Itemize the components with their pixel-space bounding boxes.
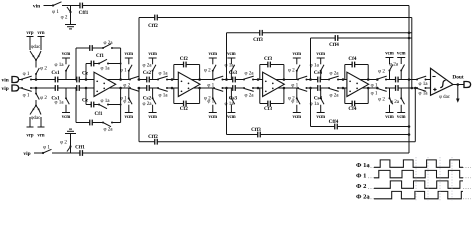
svg-text:Φ 2a: Φ 2a bbox=[356, 193, 370, 200]
svg-text:vcm: vcm bbox=[125, 115, 134, 120]
svg-text:vcm: vcm bbox=[227, 52, 236, 57]
wire bbox=[31, 87, 55, 89]
svg-text:Cᴢ: Cᴢ bbox=[82, 70, 89, 76]
wire bbox=[34, 152, 43, 154]
capacitor Cff1 (top) bbox=[79, 3, 81, 9]
svg-text:φ 1a: φ 1a bbox=[158, 93, 168, 99]
svg-text:Cf3: Cf3 bbox=[264, 106, 272, 112]
switch phi1a (stage1 inner top) bbox=[98, 63, 100, 65]
switch φ 2a to vcm (top, before Cs2) bbox=[152, 71, 154, 80]
svg-text:φ 1: φ 1 bbox=[291, 99, 298, 105]
wire bbox=[223, 87, 233, 89]
series switch φ 1 (top) bbox=[289, 79, 298, 81]
node bbox=[35, 105, 37, 107]
node bbox=[408, 32, 411, 35]
wire to op input (top) bbox=[253, 79, 263, 81]
wire to op input (bottom) bbox=[253, 87, 263, 89]
svg-text:φ 1a: φ 1a bbox=[310, 101, 320, 107]
capacitor Cf1 (bottom) bbox=[90, 102, 92, 108]
wire bbox=[52, 152, 80, 154]
wire bbox=[386, 87, 396, 89]
capacitor Cs1 (bottom) bbox=[54, 85, 56, 91]
svg-text:Cff1: Cff1 bbox=[75, 145, 85, 151]
clock waveform Φ 2 bbox=[374, 181, 463, 188]
wire bbox=[58, 87, 77, 89]
wire bus B (vertical, right) bbox=[411, 18, 413, 89]
svg-text:vcm: vcm bbox=[209, 52, 218, 57]
switch phi2a to vcm (top) bbox=[400, 71, 402, 80]
switch phi2 to ground (bottom) bbox=[70, 147, 72, 153]
capacitor Cs2 (top) bbox=[146, 77, 148, 83]
svg-text:Cff3: Cff3 bbox=[251, 127, 261, 133]
node DAC top junction bbox=[35, 78, 38, 81]
switch phi2a to vcm (bottom) bbox=[400, 88, 402, 98]
wire to op input (bottom) bbox=[338, 87, 347, 89]
series switch φ 2a (bottom) bbox=[235, 87, 244, 89]
svg-text:φ 2: φ 2 bbox=[40, 95, 47, 101]
dotted grid lines (clock) bbox=[415, 157, 417, 201]
terminal vrp bbox=[29, 37, 31, 51]
wire bbox=[79, 87, 94, 89]
clock waveform Φ 2a bbox=[374, 191, 463, 198]
svg-text:vin: vin bbox=[2, 78, 9, 84]
node feed-forward riser (top) bbox=[309, 78, 312, 81]
wire feed-forward riser to Cff rail (bottom) bbox=[138, 88, 140, 142]
wire Cff2 top rail bbox=[139, 17, 155, 19]
wire to op input (bottom) bbox=[167, 87, 178, 89]
comparator U5 bbox=[431, 68, 454, 95]
node summing (top) bbox=[342, 78, 345, 81]
svg-text:φ 1: φ 1 bbox=[23, 93, 30, 99]
wire bbox=[62, 5, 80, 7]
svg-text:Φ 1a: Φ 1a bbox=[356, 162, 370, 169]
switch phi2 (DAC top) bbox=[35, 74, 37, 80]
switch phidac right bottom (vrn) bbox=[36, 106, 39, 110]
svg-text:φ 2a: φ 2a bbox=[103, 40, 113, 46]
svg-text:φ 1: φ 1 bbox=[371, 91, 378, 97]
svg-text:φ 1a: φ 1a bbox=[224, 63, 234, 69]
wire bus C (vertical, right bottom) bbox=[414, 88, 416, 142]
latch symbol inside comparator bbox=[440, 80, 445, 87]
svg-text:φ 1a: φ 1a bbox=[310, 63, 320, 69]
capacitor Cf1 (top) bbox=[90, 61, 92, 67]
svg-text:Cf3: Cf3 bbox=[264, 56, 272, 62]
svg-text:Cs1: Cs1 bbox=[51, 70, 60, 76]
svg-text:Cs4: Cs4 bbox=[314, 70, 323, 76]
wire bbox=[18, 79, 22, 81]
series switch φ 1 (top) bbox=[205, 79, 214, 81]
node bus C / comparator bottom rail bbox=[414, 87, 417, 90]
svg-text:vrp: vrp bbox=[26, 133, 34, 138]
svg-text:Cff2: Cff2 bbox=[148, 134, 158, 140]
switch phi1a (stage1 inner bottom) bbox=[98, 104, 100, 106]
wire bbox=[398, 79, 417, 81]
dotted leader bbox=[368, 187, 374, 189]
svg-text:Cf4: Cf4 bbox=[348, 106, 356, 112]
svg-text:φ 1: φ 1 bbox=[120, 68, 127, 74]
ground bbox=[65, 24, 76, 26]
svg-text:Dout: Dout bbox=[452, 74, 463, 80]
wire bbox=[307, 87, 318, 89]
svg-text:vcm: vcm bbox=[148, 52, 157, 57]
wire comparator input top bbox=[426, 79, 431, 81]
wire Cff2 bottom rail bbox=[139, 141, 155, 143]
node bus B / comparator bottom rail bbox=[411, 87, 414, 90]
svg-text:vcm: vcm bbox=[385, 115, 394, 120]
capacitor Cf4 (bottom feedback) bbox=[344, 88, 346, 104]
switch phi2 to ground bbox=[70, 6, 72, 12]
switch phi2a (stage1 outer bottom) bbox=[102, 122, 104, 124]
switch φ 1a to vcm (top, before Cs3) bbox=[230, 71, 232, 80]
capacitor Cs2 (bottom) bbox=[146, 85, 148, 91]
wire Cff4 top rail bbox=[311, 37, 336, 39]
terminal vrn bottom bbox=[40, 117, 42, 127]
capacitor Cz (bottom) bbox=[76, 85, 78, 91]
wire Cff3 bottom rail bbox=[227, 134, 258, 136]
ground (bottom, inverted) bbox=[65, 133, 76, 135]
svg-text:Cf2: Cf2 bbox=[180, 106, 188, 112]
op-amp U1 (integrator 1) bbox=[94, 72, 116, 96]
switch phi1 (vip) bbox=[21, 87, 23, 89]
wire Cff4 bottom rail bbox=[311, 126, 335, 128]
svg-text:vcm: vcm bbox=[148, 115, 157, 120]
svg-text:vcm: vcm bbox=[293, 115, 302, 120]
comparator plus input mark bbox=[433, 89, 436, 91]
terminal vrn bbox=[40, 37, 42, 51]
op-amp U4 (integrator 4) bbox=[347, 72, 369, 96]
svg-text:φ dac: φ dac bbox=[439, 95, 451, 100]
terminal vrp bottom bbox=[29, 117, 31, 127]
capacitor Cff4 (bottom) bbox=[334, 124, 336, 130]
svg-text:Cff1: Cff1 bbox=[79, 10, 89, 16]
wire bbox=[44, 5, 54, 7]
svg-text:φ 1a: φ 1a bbox=[100, 98, 110, 104]
capacitor Cs4 (bottom) bbox=[317, 85, 319, 91]
capacitor Cf2 (top feedback) bbox=[173, 65, 175, 80]
svg-text:vcm: vcm bbox=[385, 51, 394, 56]
node bbox=[85, 78, 88, 81]
svg-text:vin: vin bbox=[33, 3, 40, 9]
series switch phi1a (top comparator input) bbox=[416, 79, 418, 81]
node summing (top) bbox=[171, 78, 174, 81]
wire bbox=[79, 79, 94, 81]
node feed-forward riser (top) bbox=[225, 78, 228, 81]
wire stage1 inner loop bottom bbox=[85, 88, 87, 105]
switch phidac left bottom (vrp) bbox=[34, 106, 37, 110]
input pad vip bbox=[12, 85, 19, 91]
dotted leader bbox=[368, 198, 374, 200]
svg-text:φ 2: φ 2 bbox=[40, 66, 47, 72]
svg-text:φ 1a: φ 1a bbox=[54, 100, 64, 106]
svg-text:vcm: vcm bbox=[293, 52, 302, 57]
node summing (bottom) bbox=[171, 87, 174, 90]
switch φ 2 to vcm (bottom, after op) bbox=[212, 88, 214, 98]
wire Cff3 top rail bbox=[227, 32, 260, 34]
svg-text:vcm: vcm bbox=[397, 115, 406, 120]
wire bus A (vertical, right) bbox=[408, 6, 410, 154]
comparator minus input mark bbox=[432, 76, 435, 78]
svg-text:φ 1a: φ 1a bbox=[100, 66, 110, 72]
node bbox=[120, 63, 122, 65]
dotted leader bbox=[368, 166, 374, 168]
wire comparator output bbox=[453, 84, 464, 86]
wire bbox=[58, 79, 77, 81]
svg-text:φ 2: φ 2 bbox=[288, 68, 295, 74]
svg-text:φ 1a: φ 1a bbox=[224, 101, 234, 107]
switch φ 2 to vcm (top, after op) bbox=[212, 71, 214, 80]
node bus A / comparator top rail bbox=[408, 78, 411, 81]
svg-text:φ 2: φ 2 bbox=[378, 69, 385, 75]
wire stage1 outer loop top bbox=[75, 48, 77, 80]
svg-text:Cf2: Cf2 bbox=[180, 56, 188, 62]
switch phi2a (stage1 outer top) bbox=[102, 47, 104, 49]
svg-text:Cff4: Cff4 bbox=[329, 119, 339, 125]
svg-text:φ 2a: φ 2a bbox=[329, 93, 339, 99]
series switch φ 2a (top) bbox=[320, 79, 329, 81]
svg-text:φ 2: φ 2 bbox=[61, 15, 68, 21]
svg-text:φ 1: φ 1 bbox=[23, 71, 30, 77]
svg-text:vcm: vcm bbox=[397, 51, 406, 56]
svg-text:vrn: vrn bbox=[37, 31, 45, 36]
switch phi2 to vcm (top) bbox=[389, 71, 391, 80]
capacitor Cf2 (bottom feedback) bbox=[173, 88, 175, 104]
node bbox=[120, 104, 122, 106]
wire op outputs bbox=[276, 79, 292, 81]
switch φ 2a to vcm (bottom, before Cs2) bbox=[152, 88, 154, 98]
node feed-forward riser (bottom) bbox=[309, 87, 312, 90]
capacitor Cs1 (top) bbox=[54, 77, 56, 83]
capacitor Cs4 (top) bbox=[317, 77, 319, 83]
wire bbox=[139, 87, 147, 89]
capacitor Cf4 (top feedback) bbox=[344, 65, 346, 80]
capacitor Cs3 (top) bbox=[232, 77, 234, 83]
svg-text:Cᴢ: Cᴢ bbox=[82, 98, 89, 104]
capacitor comparator sampling (top) bbox=[395, 77, 397, 83]
series switch φ 1a (bottom) bbox=[149, 87, 158, 89]
switch phi1 (bottom feed-forward) bbox=[42, 152, 44, 154]
wire feed-forward riser to Cff rail (bottom) bbox=[310, 88, 312, 127]
svg-text:φ 2a: φ 2a bbox=[390, 99, 400, 105]
series switch phi1 (top, before comparator caps) bbox=[376, 79, 378, 81]
svg-text:φ 1a: φ 1a bbox=[418, 81, 428, 87]
node feed-forward riser (bottom) bbox=[138, 87, 141, 90]
series switch φ 2a (top) bbox=[235, 79, 244, 81]
node bbox=[408, 133, 411, 136]
svg-text:φ 1a: φ 1a bbox=[54, 62, 64, 68]
svg-text:vcm: vcm bbox=[62, 52, 71, 57]
svg-text:φ 1: φ 1 bbox=[52, 9, 59, 15]
wire op outputs bbox=[192, 79, 208, 81]
series switch φ 2a (bottom) bbox=[320, 87, 329, 89]
svg-text:vcm: vcm bbox=[125, 52, 134, 57]
capacitor Cf1 outer (top) bbox=[89, 45, 91, 51]
switch φ 1a to vcm (top, before Cs4) bbox=[320, 71, 322, 80]
svg-text:vcm: vcm bbox=[62, 115, 71, 120]
wire to op input (top) bbox=[338, 79, 347, 81]
wire feed-forward riser to Cff rail (top) bbox=[310, 38, 312, 80]
switch phidac right (vrn) bbox=[36, 57, 39, 61]
series switch φ 2 (bottom) bbox=[121, 87, 130, 89]
node summing (bottom) bbox=[257, 87, 260, 90]
node DAC bottom junction bbox=[35, 87, 38, 90]
wire bbox=[31, 79, 55, 81]
series switch φ 1a (top) bbox=[149, 79, 158, 81]
wire to op input (top) bbox=[167, 79, 178, 81]
svg-text:φ 2: φ 2 bbox=[378, 97, 385, 103]
svg-text:Cs2: Cs2 bbox=[143, 70, 152, 76]
node bbox=[408, 37, 411, 40]
series switch phi1a (bottom comparator input) bbox=[416, 87, 418, 89]
switch φ 2 to vcm (bottom, after op) bbox=[296, 88, 298, 98]
svg-text:φ 1: φ 1 bbox=[43, 145, 50, 151]
svg-text:Cf1: Cf1 bbox=[96, 53, 104, 59]
series switch φ 1 (bottom) bbox=[289, 87, 298, 89]
clock waveform Φ 1 bbox=[374, 170, 463, 177]
node feed-forward riser (top) bbox=[138, 78, 141, 81]
wire bbox=[223, 79, 233, 81]
op-amp U3 (integrator 3) bbox=[263, 72, 285, 96]
capacitor Cff1 (bottom) bbox=[79, 150, 81, 156]
svg-text:φ 1a: φ 1a bbox=[158, 71, 168, 77]
node summing (top) bbox=[257, 78, 260, 81]
svg-text:φ 2: φ 2 bbox=[204, 68, 211, 74]
output pad Dout bbox=[464, 82, 471, 88]
series switch φ 1 (bottom) bbox=[205, 87, 214, 89]
wire stage1 outer loop bottom bbox=[75, 88, 77, 123]
svg-text:Cs3: Cs3 bbox=[229, 96, 238, 102]
node op4 output (bottom) bbox=[376, 87, 379, 90]
capacitor Cf3 (top feedback) bbox=[259, 65, 261, 80]
node Cz bottom plate junction bbox=[75, 87, 77, 89]
svg-text:φ 1a: φ 1a bbox=[418, 91, 428, 97]
series switch φ 2 (top) bbox=[121, 79, 130, 81]
wire comparator input bottom bbox=[426, 87, 431, 89]
svg-text:vcm: vcm bbox=[227, 115, 236, 120]
wire feed-forward riser to Cff rail (top) bbox=[226, 33, 228, 80]
op-amp U2 (integrator 2) bbox=[178, 72, 200, 96]
wire stage1 inner loop top bbox=[85, 64, 87, 80]
input pad vin bbox=[12, 77, 19, 83]
switch phi1 (top feed-forward) bbox=[52, 4, 54, 6]
switch φ 2 to vcm (top, after op) bbox=[296, 71, 298, 80]
wire bbox=[139, 79, 147, 81]
switch φ 1a to vcm (bottom, before Cs4) bbox=[320, 88, 322, 98]
svg-text:vrp: vrp bbox=[26, 31, 34, 36]
capacitor Cff3 (bottom) bbox=[257, 132, 259, 138]
svg-text:φdac: φdac bbox=[31, 116, 40, 121]
wire feed-forward riser to Cff rail (top) bbox=[138, 18, 140, 80]
svg-text:Cf1: Cf1 bbox=[95, 111, 103, 117]
capacitor Cff2 (top) bbox=[154, 15, 156, 21]
capacitor Cf3 (bottom feedback) bbox=[259, 88, 261, 104]
svg-text:φ 2a: φ 2a bbox=[142, 101, 152, 107]
clock waveform Φ 1a bbox=[374, 160, 463, 167]
node feed-forward riser (bottom) bbox=[225, 87, 228, 90]
series switch phi1 (bottom, before comparator caps) bbox=[376, 87, 378, 89]
svg-text:vcm: vcm bbox=[316, 52, 325, 57]
svg-text:φ 2a: φ 2a bbox=[142, 63, 152, 69]
svg-text:φ 2a: φ 2a bbox=[244, 93, 254, 99]
svg-text:vrn: vrn bbox=[37, 133, 45, 138]
wire bbox=[398, 87, 417, 89]
node Cz top plate junction bbox=[75, 79, 77, 81]
node bbox=[408, 125, 411, 128]
svg-text:Cs2: Cs2 bbox=[143, 96, 152, 102]
wire bbox=[18, 87, 22, 89]
capacitor Cff4 (top) bbox=[334, 35, 336, 41]
svg-text:φ 2: φ 2 bbox=[123, 99, 130, 105]
svg-text:Cff3: Cff3 bbox=[253, 37, 263, 43]
svg-text:vcm: vcm bbox=[209, 115, 218, 120]
svg-text:φ 2a: φ 2a bbox=[244, 71, 254, 77]
switch phi2 (DAC bottom) bbox=[35, 88, 37, 94]
switch phi2 to vcm (bottom) bbox=[389, 88, 391, 98]
wire bbox=[307, 79, 318, 81]
wire feedback to DAC (arrow down) bbox=[457, 85, 459, 99]
svg-text:φ 2a: φ 2a bbox=[389, 62, 399, 68]
wire op outputs bbox=[360, 79, 376, 81]
svg-text:vip: vip bbox=[23, 151, 30, 157]
svg-text:Φ 2: Φ 2 bbox=[356, 183, 367, 190]
node summing (bottom) bbox=[342, 87, 345, 90]
switch phi1a to vcm (top) bbox=[65, 71, 67, 80]
node bbox=[35, 59, 37, 61]
svg-text:φdac: φdac bbox=[31, 45, 40, 50]
wire feed-forward riser to Cff rail (bottom) bbox=[226, 88, 228, 135]
switch φ 1 to vcm (bottom, after op) bbox=[128, 88, 130, 98]
switch phi1a to vcm (bottom) bbox=[65, 88, 67, 98]
switch φ 1 to vcm (top, after op) bbox=[128, 71, 130, 80]
capacitor Cs3 (bottom) bbox=[232, 85, 234, 91]
wire Cff1 rail to bus A bbox=[83, 5, 410, 7]
svg-text:Cff2: Cff2 bbox=[148, 23, 158, 29]
svg-text:Cs3: Cs3 bbox=[229, 70, 238, 76]
svg-text:φ 1: φ 1 bbox=[207, 99, 214, 105]
svg-text:vcm: vcm bbox=[316, 115, 325, 120]
svg-text:φ 2a: φ 2a bbox=[329, 71, 339, 77]
svg-text:Φ 1: Φ 1 bbox=[356, 172, 366, 179]
svg-text:Cs4: Cs4 bbox=[314, 96, 323, 102]
dotted leader bbox=[368, 177, 374, 179]
switch phidac left (vrp) bbox=[34, 57, 37, 61]
capacitor Cf1 outer (bottom) bbox=[89, 120, 91, 126]
svg-text:Cff4: Cff4 bbox=[329, 42, 339, 48]
svg-text:Cf4: Cf4 bbox=[348, 56, 356, 62]
node op4 output (top) bbox=[376, 78, 379, 81]
wire op1 outputs bbox=[108, 79, 131, 81]
capacitor comparator sampling (bottom) bbox=[395, 85, 397, 91]
capacitor Cz (top) bbox=[76, 77, 78, 83]
node bbox=[85, 87, 88, 90]
capacitor Cff3 (top) bbox=[259, 30, 261, 36]
capacitor Cff2 (bottom) bbox=[154, 139, 156, 145]
wire bbox=[386, 79, 396, 81]
svg-text:φ 2: φ 2 bbox=[60, 140, 67, 146]
wire Cff1 bottom rail bbox=[83, 152, 410, 154]
switch φ 1a to vcm (bottom, before Cs3) bbox=[230, 88, 232, 98]
svg-text:φ 2a: φ 2a bbox=[103, 127, 113, 133]
svg-text:vip: vip bbox=[2, 86, 9, 92]
switch phi1 (vin) bbox=[21, 79, 23, 81]
